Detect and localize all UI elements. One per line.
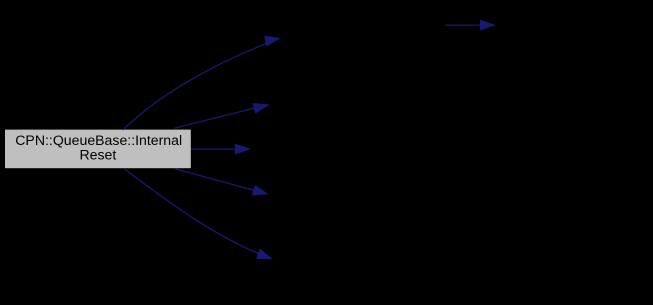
hidden node N1 (black on black, right of edge 1) xyxy=(281,27,444,51)
hidden node N4 xyxy=(269,181,419,205)
hidden node N5 xyxy=(272,245,422,269)
edge 6: horizontal arrow N1 to N6 xyxy=(445,20,494,30)
svg-text:Reset: Reset xyxy=(79,147,116,163)
hidden node N6 (black on black, right of edge 6) xyxy=(496,13,648,37)
edge 2: near-straight line to N2 xyxy=(175,104,269,129)
hidden node N3 xyxy=(252,137,402,161)
node U0: CPN::QueueBase::InternalReset (highlighted grey node) xyxy=(5,130,191,169)
edge 4: straight line down to N4 xyxy=(174,169,267,195)
edge 1: curve from box top to N1 xyxy=(123,36,279,130)
edge 3: horizontal line to N3 xyxy=(191,144,249,154)
edge 5: curve from box bottom down to N5 xyxy=(125,169,272,259)
hidden node N2 xyxy=(269,92,419,116)
svg-text:CPN::QueueBase::Internal: CPN::QueueBase::Internal xyxy=(15,132,182,148)
